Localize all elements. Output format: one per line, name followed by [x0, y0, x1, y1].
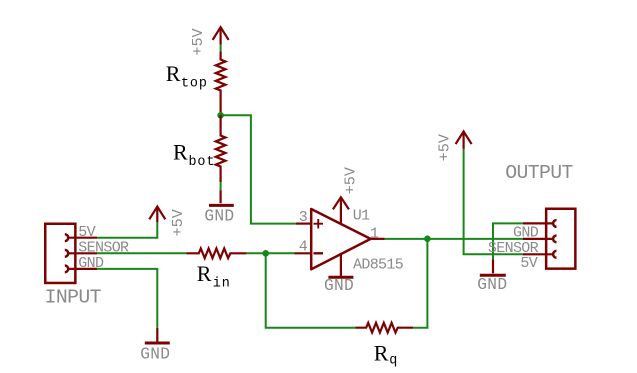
- svg-text:in: in: [213, 276, 231, 291]
- svg-text:R: R: [197, 261, 212, 286]
- svg-text:4: 4: [299, 238, 308, 255]
- svg-text:bot: bot: [189, 155, 216, 170]
- node divider junction: [217, 112, 224, 119]
- wire SENSOR to R_in: [97, 252, 186, 254]
- svg-text:+5V: +5V: [189, 27, 207, 55]
- svg-text:+5V: +5V: [435, 133, 453, 161]
- ground GND input: [145, 328, 170, 343]
- wire R_top upper gap: [220, 45, 222, 52]
- svg-text:OUTPUT: OUTPUT: [505, 162, 573, 184]
- svg-text:GND: GND: [140, 345, 170, 363]
- wire op-amp output net: [385, 238, 524, 240]
- svg-text:GND: GND: [477, 276, 507, 294]
- wire inverting node to R_g: [266, 253, 356, 327]
- resistor R_in: [187, 248, 247, 258]
- svg-text:R: R: [173, 139, 188, 164]
- ground GND1 below R_bot: [209, 190, 234, 205]
- resistor R_bot: [216, 115, 226, 182]
- svg-text:GND: GND: [204, 208, 234, 226]
- svg-text:INPUT: INPUT: [45, 287, 102, 309]
- ground GND output: [480, 259, 506, 275]
- wire R_g to output junction: [413, 239, 427, 328]
- ground GND op-amp: [328, 253, 353, 277]
- wire R_bot lower gap: [220, 182, 222, 190]
- svg-text:1: 1: [370, 225, 379, 242]
- svg-text:q: q: [389, 354, 397, 369]
- minus mark: [314, 252, 324, 254]
- wire R_in to pin4: [247, 252, 295, 254]
- svg-text:U1: U1: [353, 208, 370, 225]
- svg-text:top: top: [181, 76, 208, 91]
- node inverting input junction: [262, 250, 269, 257]
- resistor R_top: [216, 52, 226, 116]
- wire input 5V net: [97, 222, 157, 237]
- svg-text:AD8515: AD8515: [353, 256, 404, 273]
- wire output GND net: [493, 223, 523, 259]
- resistor R_g: [355, 323, 413, 333]
- svg-text:5V: 5V: [520, 255, 537, 272]
- svg-text:R: R: [166, 61, 181, 86]
- wire divider junction to op-amp pin3: [221, 115, 296, 223]
- svg-text:GND: GND: [324, 277, 354, 295]
- svg-text:5V: 5V: [78, 224, 95, 241]
- svg-text:R: R: [374, 341, 389, 366]
- supply +5V arrow op-amp: [333, 197, 349, 224]
- svg-text:3: 3: [299, 209, 308, 226]
- wire input GND net: [97, 269, 157, 328]
- connector INPUT J1: [45, 224, 97, 283]
- supply +5V arrow input: [149, 207, 165, 223]
- node output junction: [424, 236, 431, 243]
- svg-text:+5V: +5V: [341, 166, 359, 194]
- op-amp U1 triangle: [311, 209, 370, 269]
- op-amp input pin stubs: [295, 224, 385, 254]
- plus mark: [314, 219, 324, 228]
- svg-text:+5V: +5V: [169, 208, 187, 236]
- supply +5V arrow output: [456, 131, 472, 149]
- supply +5V arrow top (divider): [213, 27, 229, 44]
- connector OUTPUT J2: [523, 209, 575, 269]
- wire output 5V net: [464, 149, 523, 254]
